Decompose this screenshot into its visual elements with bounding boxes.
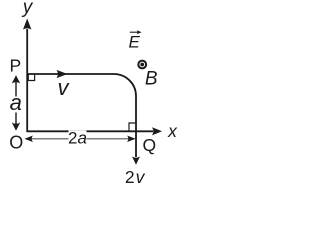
svg-text:O: O — [9, 133, 23, 153]
svg-text:y: y — [21, 0, 34, 18]
svg-text:x: x — [167, 121, 178, 141]
svg-text:Q: Q — [142, 135, 156, 155]
svg-text:a: a — [10, 90, 22, 115]
svg-text:2a: 2a — [68, 128, 87, 147]
svg-text:E: E — [129, 33, 141, 52]
svg-text:2v: 2v — [125, 167, 146, 187]
svg-text:P: P — [9, 55, 21, 75]
svg-text:B: B — [145, 69, 158, 90]
